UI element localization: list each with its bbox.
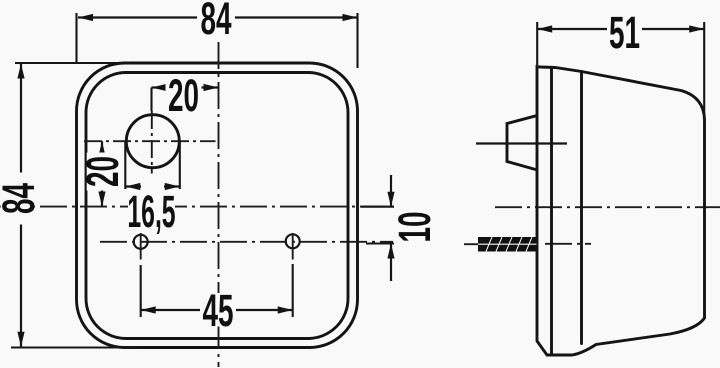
dimension 10: arrowheads — [387, 192, 394, 259]
side view: stud centerline tail — [464, 243, 478, 245]
bulb hole horizontal centerline — [84, 140, 216, 142]
front view: inner bezel outline — [86, 73, 348, 339]
dimension 84 left: extension lines — [11, 63, 140, 348]
front view: right mounting hole — [286, 234, 300, 248]
dimension 20 vertical: label — [77, 153, 127, 191]
svg-text:51: 51 — [609, 7, 640, 57]
vertical main centerline — [218, 42, 220, 367]
dimension 84 top: extension lines — [77, 13, 358, 68]
dimension 10: extension lines — [361, 207, 394, 244]
dimension 45: dimension line — [141, 309, 293, 311]
dimension 84 left: arrowheads — [17, 64, 24, 347]
dimension 10: dimension lines — [390, 175, 392, 281]
mounting hole axis centerline — [100, 242, 591, 244]
horizontal main centerline — [0, 206, 720, 209]
dimension 20 top: extension line — [150, 88, 152, 112]
dimension 16,5: label — [128, 194, 175, 228]
left hole cross line — [140, 233, 142, 260]
dimension 20 top: dimension line — [152, 86, 219, 88]
dimension 16,5: arrowheads and tails — [125, 185, 180, 187]
dimension 84 top: label — [197, 1, 235, 35]
dimension 10: label — [389, 210, 439, 245]
dimension 51: arrowheads — [537, 25, 704, 32]
side view: threaded mounting stud — [478, 237, 537, 252]
dimension 16,5: extension lines — [125, 141, 180, 189]
dimension 84 top: dimension line — [78, 16, 357, 18]
side view: body rear edge — [580, 72, 583, 344]
side view: body outline — [537, 67, 705, 356]
front view: left mounting hole — [134, 235, 148, 249]
svg-text:84: 84 — [200, 0, 231, 44]
svg-text:84: 84 — [0, 183, 44, 214]
side view: lens inner edge — [550, 67, 553, 355]
dimension 20 vertical: dimension line — [101, 141, 103, 206]
svg-text:20: 20 — [168, 70, 199, 120]
dimension 45: label — [200, 293, 236, 327]
svg-text:10: 10 — [389, 211, 439, 242]
side view: connector centerline — [476, 142, 567, 144]
svg-text:16,5: 16,5 — [127, 186, 175, 237]
dimension 84 left: label — [0, 173, 44, 225]
front view: bulb hole circle — [126, 115, 179, 168]
svg-text:45: 45 — [202, 285, 233, 335]
dimension 45: extension lines — [141, 264, 293, 317]
dimension 51: dimension line — [537, 28, 704, 30]
svg-text:20: 20 — [77, 156, 127, 187]
dimension 20 top: arrowheads — [152, 84, 219, 91]
dimension 51: label — [607, 15, 642, 49]
dimension 84 top: arrowheads — [78, 14, 358, 21]
dimension 51: extension lines — [537, 22, 704, 120]
dimension 20 vertical: arrowheads — [98, 141, 105, 206]
dimension 84 left: dimension line — [20, 64, 22, 347]
front view: outer flange outline — [77, 63, 358, 348]
bulb hole vertical centerline — [151, 111, 153, 174]
dimension 20 top: label — [166, 78, 202, 111]
dimension 45: arrowheads — [141, 306, 293, 313]
right hole cross line — [292, 233, 294, 260]
side view: connector trapezoid — [507, 116, 536, 170]
